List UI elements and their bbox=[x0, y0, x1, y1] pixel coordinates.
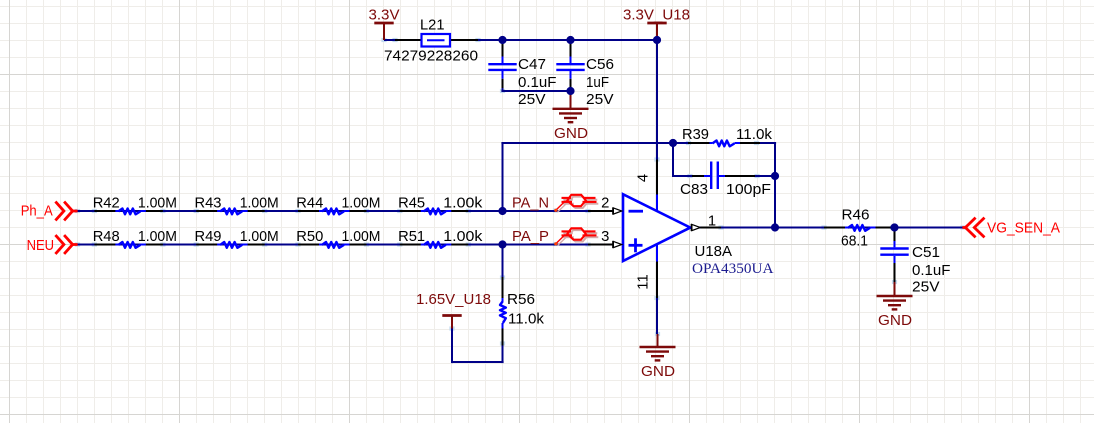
svg-text:2: 2 bbox=[601, 195, 609, 211]
svg-text:GND: GND bbox=[878, 313, 912, 329]
svg-text:C83: C83 bbox=[680, 182, 708, 198]
svg-text:R50: R50 bbox=[296, 229, 323, 245]
svg-text:0.1uF: 0.1uF bbox=[518, 75, 557, 91]
svg-text:Ph_A: Ph_A bbox=[21, 204, 53, 220]
svg-text:100pF: 100pF bbox=[726, 182, 771, 198]
svg-text:U18A: U18A bbox=[695, 244, 733, 260]
svg-text:1.00M: 1.00M bbox=[240, 229, 279, 245]
svg-text:1uF: 1uF bbox=[586, 75, 609, 91]
svg-text:1.65V_U18: 1.65V_U18 bbox=[416, 292, 491, 308]
svg-text:74279228260: 74279228260 bbox=[384, 49, 478, 65]
svg-text:3: 3 bbox=[601, 229, 609, 245]
svg-text:1.00M: 1.00M bbox=[138, 229, 177, 245]
svg-text:C56: C56 bbox=[586, 57, 614, 73]
svg-text:L21: L21 bbox=[420, 17, 445, 33]
svg-text:GND: GND bbox=[641, 364, 675, 380]
svg-text:C51: C51 bbox=[912, 245, 940, 261]
svg-text:25V: 25V bbox=[586, 92, 614, 108]
svg-text:R49: R49 bbox=[195, 229, 222, 245]
svg-text:11.0k: 11.0k bbox=[736, 127, 773, 143]
svg-text:R39: R39 bbox=[682, 127, 709, 143]
svg-text:R48: R48 bbox=[93, 229, 120, 245]
svg-text:OPA4350UA: OPA4350UA bbox=[692, 261, 774, 277]
svg-text:NEU: NEU bbox=[27, 238, 55, 254]
svg-text:R44: R44 bbox=[296, 195, 323, 211]
svg-text:R51: R51 bbox=[398, 229, 425, 245]
svg-text:R43: R43 bbox=[195, 195, 222, 211]
svg-text:3.3V: 3.3V bbox=[369, 7, 400, 23]
svg-text:11: 11 bbox=[636, 274, 652, 289]
svg-text:R46: R46 bbox=[842, 208, 870, 224]
svg-text:PA_P: PA_P bbox=[512, 229, 549, 245]
svg-text:1: 1 bbox=[708, 213, 716, 229]
svg-text:4: 4 bbox=[636, 174, 652, 182]
svg-text:3.3V_U18: 3.3V_U18 bbox=[623, 7, 690, 23]
svg-text:1.00k: 1.00k bbox=[443, 229, 483, 245]
svg-text:68.1: 68.1 bbox=[841, 234, 868, 250]
svg-text:25V: 25V bbox=[518, 92, 546, 108]
svg-text:0.1uF: 0.1uF bbox=[912, 263, 951, 279]
svg-text:1.00M: 1.00M bbox=[342, 229, 381, 245]
svg-text:R56: R56 bbox=[507, 292, 535, 308]
svg-text:1.00M: 1.00M bbox=[240, 195, 279, 211]
svg-text:1.00M: 1.00M bbox=[342, 195, 381, 211]
svg-text:VG_SEN_A: VG_SEN_A bbox=[987, 221, 1060, 237]
svg-text:R42: R42 bbox=[93, 195, 120, 211]
svg-text:11.0k: 11.0k bbox=[508, 312, 545, 328]
svg-text:1.00M: 1.00M bbox=[138, 195, 177, 211]
svg-text:C47: C47 bbox=[518, 57, 546, 73]
svg-text:R45: R45 bbox=[398, 195, 425, 211]
svg-text:GND: GND bbox=[554, 126, 588, 142]
svg-text:PA_N: PA_N bbox=[512, 195, 549, 211]
svg-text:25V: 25V bbox=[912, 280, 940, 296]
svg-text:1.00k: 1.00k bbox=[443, 195, 483, 211]
